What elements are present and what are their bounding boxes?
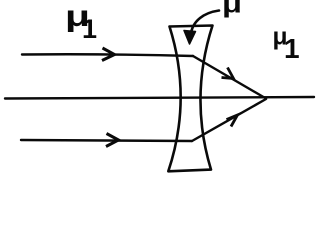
- svg-text:1: 1: [82, 14, 97, 44]
- lens (biconcave): [168, 26, 212, 172]
- svg-text:1: 1: [284, 33, 300, 64]
- curved pointer arrowhead: [184, 31, 196, 45]
- wire bottom ray arrowhead: [106, 134, 119, 147]
- wire bottom refracted ray: [192, 99, 266, 141]
- wire bottom refracted arrowhead: [227, 115, 238, 127]
- curved pointer arrow to lens: [191, 11, 220, 37]
- wire top refracted ray: [193, 56, 266, 99]
- wire bottom incident ray: [21, 140, 192, 141]
- wire top incident ray: [22, 54, 193, 56]
- wire top ray arrowhead: [102, 48, 115, 61]
- wire top refracted arrowhead: [222, 68, 234, 79]
- wire middle axis ray: [5, 97, 314, 99]
- svg-text:μ: μ: [222, 0, 242, 18]
